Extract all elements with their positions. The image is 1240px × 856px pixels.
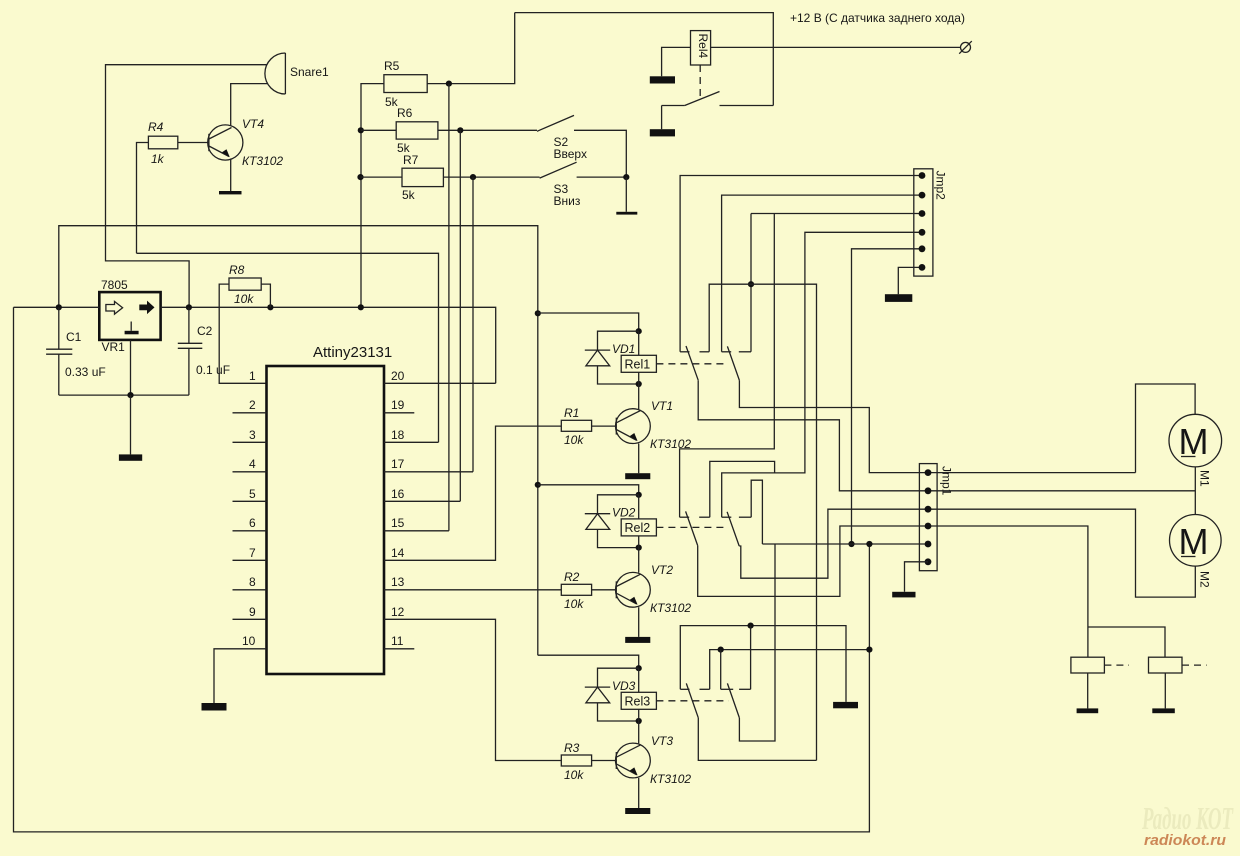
relay coil Rel3 <box>621 668 656 721</box>
pin 17 wire to R7 net <box>384 457 473 472</box>
diode VD2 <box>585 495 639 548</box>
wire: Rel3 to VT3 collector <box>638 721 640 743</box>
wire: +5V rail <box>14 306 100 308</box>
relay coil Rel4 <box>691 31 711 65</box>
svg-text:R3: R3 <box>564 741 580 755</box>
wire: Jmp2 pin2 to Rel1 contact K1.2 left <box>722 195 922 352</box>
pin 15 wire to R5 net <box>384 516 449 531</box>
wire: Rel3 grounded bar <box>680 626 846 702</box>
wire: Jmp1 pin1 to M1 plus <box>937 472 1135 474</box>
dashed link Rel2 to contacts <box>656 526 727 528</box>
node: R7 left junction <box>357 174 363 180</box>
wire: M1 minus to M2 plus <box>1194 467 1196 515</box>
ground at K5 <box>1152 708 1175 713</box>
wire: K2.2 right contact to Jmp1 pin5 wire <box>751 480 762 544</box>
wire: speaker top to +5V rail (via left jog) <box>106 65 267 308</box>
svg-text:КТ3102: КТ3102 <box>242 154 283 168</box>
wire: Jmp1 pin5 horizontal <box>762 543 928 545</box>
relay contact K1.1 arm <box>686 346 698 380</box>
ground under switches <box>616 212 637 215</box>
pin 10 wire to ground <box>214 634 267 703</box>
wire: Jmp2 pin6 to ground <box>898 267 922 294</box>
dashed link Rel3 to contacts <box>656 700 728 702</box>
dashed link Rel1 to contacts <box>656 363 727 365</box>
wire: R7 to pin17 riser <box>472 177 474 472</box>
voltage regulator U VR1 7805 <box>99 278 160 354</box>
relay coil Rel2 <box>621 495 656 548</box>
wire: R4 right to VT4 base <box>178 142 209 144</box>
wire: left supply loop down and along bottom <box>14 307 870 832</box>
wire: top rail <box>515 13 774 106</box>
node: K3.2 left junction <box>718 647 724 653</box>
relay contact K2.1 arm <box>686 511 698 545</box>
svg-text:radiokot.ru: radiokot.ru <box>1144 832 1226 849</box>
motor M2 <box>1170 515 1222 588</box>
wire: VT1 emitter to ground <box>638 444 640 474</box>
svg-text:R7: R7 <box>403 153 419 167</box>
header Jmp1 <box>919 464 953 571</box>
svg-text:Jmp2: Jmp2 <box>934 171 948 201</box>
wire: VT4 emitter to ground <box>230 159 232 192</box>
svg-text:VD2: VD2 <box>612 506 636 520</box>
wire: VT2 emitter to ground <box>638 607 640 637</box>
pin 4 <box>233 457 267 472</box>
svg-text:VD1: VD1 <box>612 342 635 356</box>
pin 18 wire to R4 net <box>384 428 439 442</box>
svg-text:1: 1 <box>249 369 256 383</box>
node: R5 output junction <box>446 81 452 87</box>
pin 19 stub <box>384 398 414 413</box>
wire: Jmp1 pin2 to M1/M2 midpoint <box>937 490 1195 492</box>
wire: R5 to pin15 riser <box>448 84 450 531</box>
svg-text:C2: C2 <box>197 324 213 338</box>
ground at K4 <box>1077 708 1099 713</box>
wire: Jmp1 pin3 to M2 minus <box>937 509 1195 597</box>
wire: M1 plus riser <box>1136 384 1196 473</box>
svg-text:19: 19 <box>391 398 405 412</box>
svg-text:R2: R2 <box>564 570 580 584</box>
ground at Rel4 coil <box>650 76 675 83</box>
node: +12V loop junction at Rel3 <box>866 647 872 653</box>
wire: R7 right to S3 <box>443 176 539 178</box>
pin 16 wire to R6 net <box>384 487 460 501</box>
relay coil K4 <box>1071 657 1129 673</box>
svg-text:VT2: VT2 <box>651 563 673 577</box>
svg-text:8: 8 <box>249 575 256 589</box>
wire: K3.2 left drop <box>720 650 722 690</box>
svg-text:1k: 1k <box>151 152 165 166</box>
switch S3 Вниз <box>540 162 581 208</box>
transistor VT4 <box>208 117 284 168</box>
wire: R8 right to +5V rail <box>261 284 270 307</box>
wire: K1.2 to Jmp1 pin1 <box>739 380 937 472</box>
svg-text:13: 13 <box>391 575 405 589</box>
node: Rel3 bottom junction <box>636 718 642 724</box>
resistor R2 <box>561 570 616 611</box>
wire: Rel2 to VT2 collector <box>638 548 640 573</box>
relay coil K5 <box>1149 657 1207 673</box>
svg-text:5: 5 <box>249 487 256 501</box>
wire: R5 right to top rail riser <box>427 13 515 84</box>
wire: VT4 collector to speaker <box>231 84 268 126</box>
wire: Jmp2 pin4 down to Rel2 contacts <box>722 232 922 517</box>
wire: S2 right contact down to S3 node <box>574 130 626 177</box>
wire: K3.1 to long riser <box>698 718 816 761</box>
svg-text:2: 2 <box>249 398 256 412</box>
wire: feed to Rel2 top <box>538 485 639 495</box>
svg-text:Rel3: Rel3 <box>625 695 651 709</box>
contact ticks Rel2 <box>680 516 752 518</box>
wire: feed to Rel3 top <box>538 655 639 668</box>
svg-text:10k: 10k <box>564 433 584 447</box>
switch S2 Вверх <box>537 115 587 161</box>
IC U1 Attiny23131 <box>267 344 393 674</box>
pin 8 <box>233 575 267 590</box>
wire: R6 right to S2 <box>438 129 537 131</box>
svg-text:5k: 5k <box>402 188 416 202</box>
transistor VT1 <box>616 399 692 451</box>
ground at Jmp1 <box>892 592 915 598</box>
ground at Jmp2 <box>885 294 912 302</box>
pin 11 stub <box>384 634 414 649</box>
wire: pin3 net drop to Rel2 contact K2.1 left <box>680 214 775 518</box>
svg-text:M1: M1 <box>1198 470 1212 487</box>
svg-text:+12 В (С датчика заднего хода): +12 В (С датчика заднего хода) <box>790 11 965 25</box>
motor M1 <box>1169 414 1222 487</box>
resistor R6 <box>396 106 438 155</box>
svg-text:Вверх: Вверх <box>554 147 587 161</box>
svg-text:Rel2: Rel2 <box>625 521 651 535</box>
svg-text:VT4: VT4 <box>242 117 264 131</box>
wire: branch to second coil <box>1088 627 1165 657</box>
wire: Rel1 to VT1 collector <box>638 384 640 409</box>
resistor R3 <box>561 741 616 782</box>
ground at Rel4 contact <box>650 129 675 136</box>
wire: Jmp2 pin5 to Jmp1 pin5 net <box>852 249 923 544</box>
wire: Jmp2 pin3 run <box>751 213 922 215</box>
wire: VR1 ground stem <box>130 340 132 395</box>
svg-text:КТ3102: КТ3102 <box>650 772 691 786</box>
pin 3 <box>233 428 267 442</box>
svg-text:10: 10 <box>242 634 256 648</box>
svg-text:0.33 uF: 0.33 uF <box>65 365 106 379</box>
pin 12 wire to R3 <box>384 605 561 761</box>
svg-text:Snare1: Snare1 <box>290 65 329 79</box>
wire: R4 left down to pin18 net <box>137 143 149 254</box>
node: Rel2 bottom junction <box>636 545 642 551</box>
svg-text:7805: 7805 <box>101 278 128 292</box>
wire: K3.2 to pin5 net riser <box>739 544 775 741</box>
svg-text:Rel1: Rel1 <box>625 358 651 372</box>
relay contact Rel4.1 <box>662 92 774 106</box>
wire: K5 coil to ground <box>1164 673 1166 708</box>
node: R7 output junction <box>470 174 476 180</box>
pin 13 wire to R2 <box>384 575 561 590</box>
relay coil Rel1 <box>621 331 656 384</box>
node: R8 junction on +5V rail <box>267 304 273 310</box>
svg-text:6: 6 <box>249 516 256 530</box>
svg-text:10k: 10k <box>234 292 254 306</box>
pin 14 wire to R1 <box>384 426 561 560</box>
svg-text:15: 15 <box>391 516 405 530</box>
wire: K1.1 to Jmp1 pin2 <box>698 380 937 491</box>
wire: +12V line from Rel4 to terminal <box>711 46 961 48</box>
wire: switches common to ground <box>625 177 627 212</box>
header Jmp2 <box>914 169 948 276</box>
svg-text:VD3: VD3 <box>612 679 636 693</box>
wire: stem to ground symbol <box>130 395 132 454</box>
node: S2/S3 common junction <box>623 174 629 180</box>
svg-text:10k: 10k <box>564 768 584 782</box>
svg-text:9: 9 <box>249 605 256 619</box>
svg-text:18: 18 <box>391 428 405 442</box>
wire: feed to Rel1 top <box>537 313 639 331</box>
node: Rel1 bottom junction <box>636 381 642 387</box>
node: R6 left junction <box>358 127 364 133</box>
resistor R7 <box>402 153 443 202</box>
ground under VT1 <box>625 473 650 479</box>
wire: K2.1 to Jmp1 pin4 <box>698 526 937 596</box>
pin 5 <box>233 487 267 501</box>
wire: Rel4 contact left to ground <box>661 106 663 130</box>
node: R6 output junction <box>457 127 463 133</box>
svg-text:12: 12 <box>391 605 405 619</box>
node: C1 junction on input rail <box>56 304 62 310</box>
ground under VR1 <box>119 454 142 460</box>
wire: pin4 net jog to K2.1 right <box>710 461 775 517</box>
pin 6 <box>233 516 267 531</box>
node: relay feed branch to Rel1 <box>535 310 541 316</box>
node: relay feed branch to Rel2 <box>535 482 541 488</box>
node: Rel3 top junction <box>636 665 642 671</box>
wire: K2.2 to Jmp1 pin3 <box>739 509 937 578</box>
svg-text:R5: R5 <box>384 59 400 73</box>
svg-text:3: 3 <box>249 428 256 442</box>
wire: Jmp1 pin6 to ground <box>905 562 929 592</box>
svg-text:7: 7 <box>249 546 256 560</box>
svg-text:R6: R6 <box>397 106 413 120</box>
resistor R5 <box>384 59 427 109</box>
ground under VT2 <box>625 637 650 643</box>
resistor R1 <box>561 406 616 447</box>
svg-text:C1: C1 <box>66 330 82 344</box>
svg-text:R4: R4 <box>148 120 164 134</box>
pin 9 <box>233 605 267 619</box>
node: Rel1 crossbar junction <box>748 281 754 287</box>
terminal +12V input <box>790 11 972 54</box>
wire: VT3 emitter to ground <box>638 778 640 808</box>
contact ticks Rel3 <box>680 688 750 690</box>
transistor VT3 <box>616 734 692 786</box>
svg-text:14: 14 <box>391 546 405 560</box>
pin 2 <box>233 398 267 413</box>
wire: S3 right contact <box>577 176 627 178</box>
node: Jmp2 pin5 net junction <box>848 541 854 547</box>
transistor VT2 <box>616 563 692 615</box>
contact ticks Rel1 <box>680 351 751 353</box>
svg-text:10k: 10k <box>564 597 584 611</box>
relay contact K1.2 arm <box>727 346 739 380</box>
wire: Jmp1 pin4 to auxiliary relay coils <box>937 526 1088 657</box>
speaker Snare1 <box>265 53 329 94</box>
svg-text:VT3: VT3 <box>651 734 673 748</box>
ground at Rel3 contacts <box>833 702 858 708</box>
wire: ground rail under C1/C2 <box>59 394 189 396</box>
resistor R4 <box>148 120 178 166</box>
svg-text:20: 20 <box>391 369 405 383</box>
wire: R7 left <box>361 176 403 178</box>
node: Rel2 top junction <box>636 492 642 498</box>
svg-text:Радио КОТ: Радио КОТ <box>1141 800 1233 836</box>
node: K3.2 right junction <box>748 623 754 629</box>
svg-text:R1: R1 <box>564 406 579 420</box>
relay contact K3.2 arm <box>727 683 739 718</box>
svg-text:Attiny23131: Attiny23131 <box>313 344 392 361</box>
wire: +12V branch riser and top run to relays feed <box>59 226 538 656</box>
node: +12V loop junction on pin5 wire <box>866 541 872 547</box>
diode VD1 <box>585 331 639 384</box>
diode VD3 <box>585 668 639 721</box>
svg-text:Rel4: Rel4 <box>696 34 710 59</box>
ground at pin 10 <box>202 703 227 711</box>
relay contact K2.2 arm <box>727 512 739 546</box>
wire: K4 coil to ground <box>1087 673 1089 708</box>
resistor R8 <box>229 263 261 306</box>
svg-text:VT1: VT1 <box>651 399 673 413</box>
svg-text:R8: R8 <box>229 263 245 277</box>
node: ground rail junction <box>127 392 133 398</box>
ground under VT4 <box>219 191 242 194</box>
capacitor C1 <box>46 307 106 395</box>
wire: Rel4 left to ground <box>662 47 691 76</box>
watermark РадиоКОТ <box>1141 800 1233 849</box>
ground under VT3 <box>625 808 650 814</box>
wire: R8 left to pin1 <box>219 284 266 383</box>
node: R5-R7 supply junction <box>358 304 364 310</box>
svg-text:11: 11 <box>391 634 404 648</box>
svg-text:VR1: VR1 <box>102 340 126 354</box>
wire: Rel3 +12V bar <box>710 650 870 690</box>
node: C2 junction on +5V rail <box>186 304 192 310</box>
wire: Jmp2 pin1 to Rel1 contact K1.1 left <box>680 176 922 352</box>
node: Rel1 top junction <box>636 328 642 334</box>
wire: R6 to pin16 riser <box>459 130 461 501</box>
dashed link Rel4 to contact <box>699 65 701 96</box>
wire: K3.2 right drop <box>750 626 752 690</box>
wire: pin18 net horizontal run <box>137 253 439 442</box>
pin 20 <box>384 369 496 383</box>
svg-text:17: 17 <box>391 457 405 471</box>
svg-text:0.1 uF: 0.1 uF <box>196 363 230 377</box>
svg-text:M2: M2 <box>1198 571 1212 588</box>
svg-text:16: 16 <box>391 487 405 501</box>
svg-text:КТ3102: КТ3102 <box>650 601 691 615</box>
svg-text:4: 4 <box>249 457 256 471</box>
wire: R5 left <box>361 84 384 308</box>
svg-text:Вниз: Вниз <box>554 194 581 208</box>
capacitor C2 <box>178 307 230 395</box>
relay contact K3.1 arm <box>686 683 698 717</box>
pin 7 <box>233 546 267 560</box>
wire: pin3 net down to Rel1 crossbar <box>750 214 752 352</box>
wire: Rel1 crossbar to long drop <box>709 284 816 760</box>
wire: R6 left <box>361 129 396 131</box>
